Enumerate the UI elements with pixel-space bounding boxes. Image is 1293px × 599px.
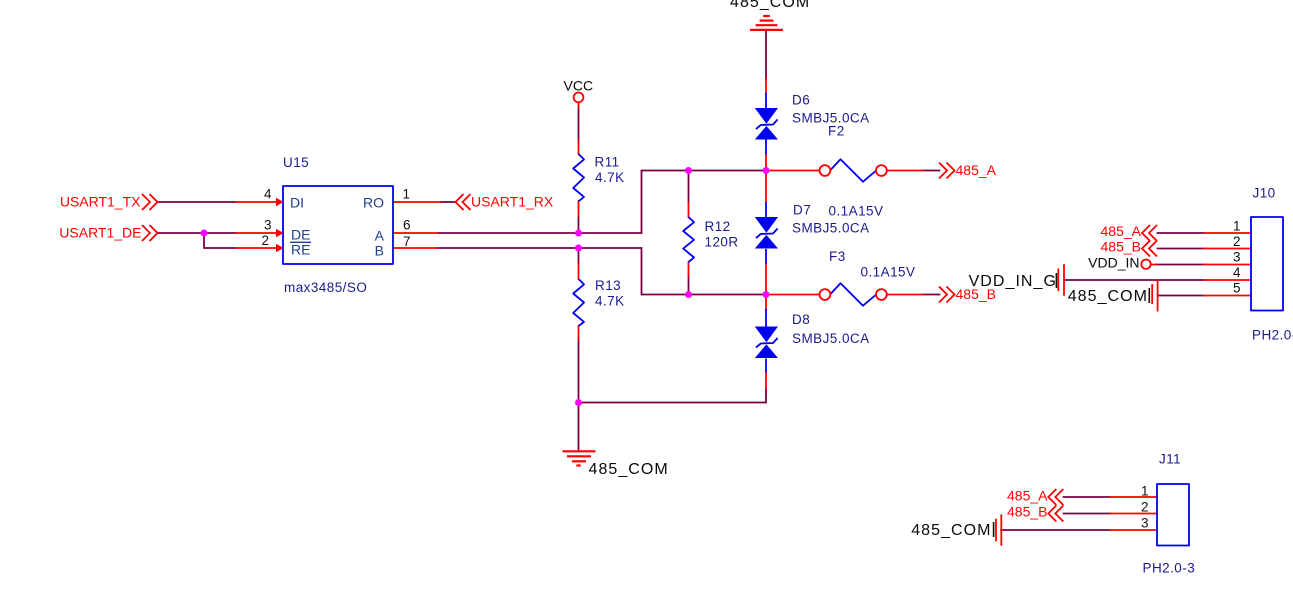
svg-text:3: 3 — [1233, 250, 1241, 265]
svg-text:0.1A15V: 0.1A15V — [861, 265, 916, 280]
svg-text:485_A: 485_A — [1101, 223, 1142, 239]
svg-text:USART1_RX: USART1_RX — [471, 194, 554, 210]
svg-text:DE: DE — [291, 227, 310, 243]
svg-text:A: A — [375, 228, 385, 244]
svg-text:U15: U15 — [283, 155, 309, 170]
svg-text:4: 4 — [264, 187, 272, 202]
svg-text:J10: J10 — [1253, 186, 1276, 201]
svg-text:1: 1 — [1233, 219, 1241, 234]
svg-text:120R: 120R — [705, 235, 739, 250]
svg-text:VDD_IN_G: VDD_IN_G — [969, 273, 1057, 290]
svg-text:485_COM: 485_COM — [1068, 288, 1148, 305]
svg-text:B: B — [375, 243, 384, 259]
svg-text:R12: R12 — [705, 219, 731, 234]
svg-text:2: 2 — [1141, 500, 1149, 515]
svg-text:F2: F2 — [828, 124, 845, 139]
svg-text:D6: D6 — [792, 93, 810, 108]
svg-text:485_A: 485_A — [1007, 488, 1048, 504]
svg-text:4.7K: 4.7K — [595, 294, 625, 309]
svg-text:D7: D7 — [793, 203, 811, 218]
svg-text:6: 6 — [403, 218, 411, 233]
svg-text:PH2.0-: PH2.0- — [1252, 328, 1293, 343]
svg-text:SMBJ5.0CA: SMBJ5.0CA — [792, 221, 870, 236]
svg-text:4: 4 — [1233, 265, 1241, 280]
svg-text:5: 5 — [1233, 281, 1241, 296]
svg-text:R13: R13 — [595, 278, 621, 293]
svg-text:7: 7 — [403, 234, 411, 249]
svg-text:RE: RE — [291, 242, 310, 258]
svg-text:3: 3 — [1141, 516, 1149, 531]
svg-text:DI: DI — [290, 195, 304, 211]
svg-text:SMBJ5.0CA: SMBJ5.0CA — [792, 331, 870, 346]
svg-text:2: 2 — [261, 233, 269, 248]
svg-text:485_B: 485_B — [1101, 239, 1141, 255]
svg-text:USART1_TX: USART1_TX — [60, 194, 141, 210]
svg-text:USART1_DE: USART1_DE — [59, 225, 141, 241]
svg-text:VCC: VCC — [564, 78, 594, 94]
svg-text:0.1A15V: 0.1A15V — [829, 204, 884, 219]
svg-text:1: 1 — [403, 187, 411, 202]
svg-text:485_COM: 485_COM — [589, 461, 669, 478]
svg-text:VDD_IN: VDD_IN — [1088, 255, 1139, 271]
svg-text:PH2.0-3: PH2.0-3 — [1143, 561, 1196, 576]
svg-text:485_B: 485_B — [1007, 504, 1047, 520]
svg-text:1: 1 — [1141, 483, 1149, 498]
svg-text:485_COM: 485_COM — [911, 522, 991, 539]
svg-text:4.7K: 4.7K — [595, 170, 625, 185]
svg-text:485_A: 485_A — [956, 162, 997, 178]
svg-text:J11: J11 — [1159, 452, 1181, 467]
svg-text:485_COM: 485_COM — [730, 0, 810, 11]
svg-text:F3: F3 — [829, 249, 846, 264]
svg-text:3: 3 — [264, 218, 272, 233]
svg-text:max3485/SO: max3485/SO — [284, 280, 367, 295]
svg-text:RO: RO — [363, 195, 384, 211]
svg-text:R11: R11 — [595, 155, 620, 170]
svg-text:2: 2 — [1233, 234, 1241, 249]
svg-text:D8: D8 — [792, 312, 810, 327]
